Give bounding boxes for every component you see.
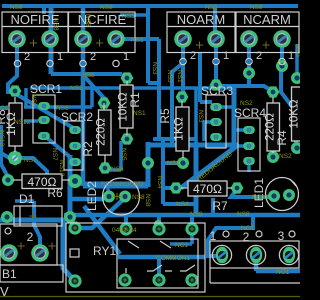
svg-text:NS3: NS3 xyxy=(122,13,135,20)
LED1 cathode pad xyxy=(283,189,295,201)
wire NS8 horizontal mid xyxy=(51,72,122,76)
wire SCR3 gate right xyxy=(218,105,232,109)
hole marker NO1 pin1 xyxy=(223,231,229,237)
relay RY1 pad bottom a xyxy=(118,273,131,286)
wire bundle vertical x170 xyxy=(172,63,183,143)
resistor R8 body xyxy=(9,97,22,152)
svg-text:2: 2 xyxy=(190,50,196,62)
connector NO1 outline xyxy=(210,241,300,283)
svg-text:R6: R6 xyxy=(47,186,63,200)
svg-text:NS3: NS3 xyxy=(166,70,173,83)
wire REDGROUND diagonal xyxy=(181,145,238,188)
svg-text:NS8: NS8 xyxy=(84,14,91,27)
svg-text:NS3: NS3 xyxy=(30,94,37,107)
svg-text:R4: R4 xyxy=(275,130,289,146)
svg-text:1: 1 xyxy=(57,51,63,63)
LED2 anode pad xyxy=(103,191,115,203)
resistor R3 body xyxy=(292,87,304,141)
wire vertical x200 to SCR3 xyxy=(200,53,212,102)
svg-text:D1: D1 xyxy=(19,192,35,206)
relay RY1 pad top b xyxy=(152,222,165,235)
thyristor SCR1 outline xyxy=(33,95,55,143)
wire NCARM pin2 down xyxy=(247,41,251,86)
battery B1 outline xyxy=(0,224,63,282)
svg-text:NS8: NS8 xyxy=(205,4,218,11)
svg-text:NS8: NS8 xyxy=(100,4,113,11)
svg-text:220Ω: 220Ω xyxy=(96,118,108,146)
connector J4 NCARM pad 2 xyxy=(240,30,258,48)
resistor R2 bottom pad xyxy=(99,162,112,173)
hole marker below NOFIRE pin1 xyxy=(47,60,53,66)
relay contact symbol bottom xyxy=(126,265,195,273)
svg-text:1KΩ: 1KΩ xyxy=(172,117,186,141)
crosshair NOARM center xyxy=(196,41,203,48)
relay RY1 pad top c xyxy=(185,222,198,235)
svg-text:NS8: NS8 xyxy=(190,211,203,218)
via below NCARM pad2 xyxy=(243,67,255,79)
wire NO1 lower xyxy=(256,260,300,271)
relay RY1 pad bottom-left xyxy=(68,274,81,287)
connector J2 NCFIRE outline xyxy=(69,12,136,53)
diode D1 left pad xyxy=(1,211,13,223)
wire NS0 vertical right edge xyxy=(295,44,299,76)
relay RY1 pad bottom b xyxy=(152,273,165,286)
resistor R5 body xyxy=(176,101,189,158)
thyristor SCR4 outline xyxy=(238,118,260,171)
connector J4 NCARM outline xyxy=(236,12,299,53)
wire SCR4 pad1 left xyxy=(232,128,247,132)
svg-text:NS6: NS6 xyxy=(56,105,69,112)
wire LED2 stub xyxy=(106,187,110,194)
wire U vertical xyxy=(161,141,165,204)
hole marker below NOFIRE pin2 xyxy=(14,60,20,66)
relay RY1 pad top a xyxy=(119,222,132,235)
connector J1 NOFIRE pad 1 xyxy=(41,30,59,48)
LED2 cathode pad xyxy=(119,191,131,203)
hole marker below NOARM pin1 xyxy=(213,58,219,64)
crosshair NCFIRE center xyxy=(96,39,103,46)
relay RY1 pad bottom c xyxy=(185,273,198,286)
thyristor SCR3 outline xyxy=(206,95,226,148)
hole marker below NCARM pin1 xyxy=(279,58,285,64)
svg-text:NS8: NS8 xyxy=(237,211,250,218)
wire R1 bottom to R2 bottom xyxy=(107,141,121,170)
hole marker below NCFIRE pin1 xyxy=(113,60,119,66)
thyristor SCR4 pad 3 xyxy=(243,157,255,165)
svg-text:NS3: NS3 xyxy=(197,110,204,123)
svg-text:NC1: NC1 xyxy=(175,242,188,249)
resistor R8 top pad xyxy=(9,85,22,96)
connector J3 NOARM pad 1 xyxy=(207,30,225,48)
connector NO1 pad 2 xyxy=(246,245,265,264)
svg-text:LED2: LED2 xyxy=(85,181,99,211)
wire NS8 stub xyxy=(42,8,46,14)
connector NO1 pad 1 xyxy=(212,245,231,264)
svg-text:NS8: NS8 xyxy=(52,18,59,31)
wire stub below R7 xyxy=(211,198,215,213)
crosshair NCARM center xyxy=(262,41,269,48)
connector NO1 pad 3 xyxy=(279,245,298,264)
wire left edge to NS7 pad xyxy=(1,153,13,160)
svg-text:NS1: NS1 xyxy=(133,110,146,117)
wire NS12 stub to SCR1 pad2 xyxy=(24,119,38,123)
board edge bottom xyxy=(0,296,300,298)
via on NS8 rail xyxy=(154,220,162,228)
svg-text:CO: CO xyxy=(0,105,10,112)
svg-text:NS4: NS4 xyxy=(167,160,180,167)
LED1 anode pad xyxy=(268,190,280,202)
svg-text:1: 1 xyxy=(223,50,229,62)
connector J1 NOFIRE outline xyxy=(2,12,68,53)
connector J3 NOARM pad 2 xyxy=(174,30,192,48)
svg-text:R5: R5 xyxy=(158,108,172,124)
resistor R3 top pad xyxy=(291,72,303,84)
thyristor SCR1 pad 1 xyxy=(38,102,50,110)
via node at x216 xyxy=(210,79,223,90)
wire SCR3 pad2 left xyxy=(204,122,214,141)
wire via to R4 top xyxy=(216,86,272,91)
resistor R8 bottom pad / node NS7 xyxy=(8,151,23,166)
wire NS8 elbow down xyxy=(148,8,159,83)
crosshair NOFIRE center xyxy=(30,39,37,46)
svg-text:R1: R1 xyxy=(128,92,142,108)
wire D1 rail xyxy=(0,218,64,223)
resistor R5 top pad xyxy=(176,91,189,102)
resistor R2 body xyxy=(99,103,112,163)
wire net NS8 top horizontal xyxy=(2,4,298,8)
svg-text:2: 2 xyxy=(24,51,30,63)
svg-text:NS1: NS1 xyxy=(176,70,183,83)
svg-text:NOARM: NOARM xyxy=(177,12,225,27)
svg-text:0402-A4: 0402-A4 xyxy=(112,227,137,234)
connector J1 NOFIRE pad 2 xyxy=(8,30,26,48)
svg-text:2: 2 xyxy=(243,230,250,244)
wire NS8 diagonal to R2 xyxy=(82,74,104,102)
wire NO1 upper xyxy=(208,216,253,256)
wire SCR2 pad2 right xyxy=(77,144,84,148)
thyristor SCR2 outline xyxy=(64,121,83,170)
hole marker below NCFIRE pin2 xyxy=(80,60,86,66)
wire NS12 vertical lower xyxy=(63,218,72,278)
hole marker NO1 pin3 xyxy=(289,231,295,237)
svg-text:NS1: NS1 xyxy=(131,37,144,44)
svg-text:NS8: NS8 xyxy=(10,4,23,11)
svg-text:NS8: NS8 xyxy=(144,194,151,207)
svg-text:NS3: NS3 xyxy=(70,85,83,92)
svg-text:10KΩ: 10KΩ xyxy=(289,99,300,128)
crosshair D1 center xyxy=(29,212,36,219)
battery B1 pad 1 xyxy=(31,244,49,262)
LED1 outline circle xyxy=(266,178,299,211)
svg-text:NS12: NS12 xyxy=(0,130,5,147)
wire NS1 horizontal xyxy=(118,39,159,137)
wire vertical x232 xyxy=(232,88,237,143)
resistor R4 body xyxy=(267,97,280,153)
wire horizontal feeder y201 xyxy=(15,199,34,203)
wire R7 to LED1 xyxy=(231,189,274,197)
wire B1 drop xyxy=(34,201,40,250)
wire LED2 feeder y199 xyxy=(68,197,104,202)
svg-text:NCARM: NCARM xyxy=(243,12,291,27)
wire SCR4 pad2 left xyxy=(234,144,247,148)
wire R8 diagonal to SCR2 xyxy=(16,94,75,129)
wire COMMON1 horizontal xyxy=(118,255,205,260)
wire NS2 below pad xyxy=(281,68,296,146)
wire NCARM pin1 down xyxy=(280,41,284,64)
svg-text:SCR4: SCR4 xyxy=(234,106,266,120)
wire LED2 diagonal xyxy=(80,197,126,228)
thyristor SCR2 pad 3 xyxy=(69,158,81,166)
svg-text:NS10: NS10 xyxy=(252,194,269,201)
svg-text:NS8: NS8 xyxy=(250,4,263,11)
wire NCFIRE pin2 long vertical xyxy=(81,8,86,186)
svg-text:3: 3 xyxy=(278,229,285,243)
resistor R4 bottom pad / node NS2 xyxy=(267,151,279,163)
wire NOARM pin2 to R5 xyxy=(181,41,185,95)
wire NS12 left edge xyxy=(1,125,8,177)
resistor R7 body xyxy=(181,181,232,196)
svg-text:REDGROUND: REDGROUND xyxy=(101,181,144,188)
wire NOFIRE pin2 down xyxy=(8,41,17,92)
svg-text:B1: B1 xyxy=(2,267,17,281)
svg-text:NS4: NS4 xyxy=(176,201,189,208)
svg-text:NS12: NS12 xyxy=(58,160,65,177)
svg-text:LED1: LED1 xyxy=(252,178,266,208)
wire NS8 jog to bottom rail xyxy=(163,202,196,206)
wire COMMON1 diagonal xyxy=(84,206,120,254)
svg-text:470Ω: 470Ω xyxy=(193,182,222,196)
relay contact symbol top xyxy=(128,241,171,248)
svg-text:NS2: NS2 xyxy=(279,153,292,160)
svg-text:NS3: NS3 xyxy=(151,62,158,75)
wire CO stub left edge xyxy=(0,106,8,110)
connector J2 NCFIRE pad 2 xyxy=(74,30,92,48)
resistor R2 top pad xyxy=(98,97,111,108)
thyristor SCR3 pad 3 xyxy=(210,133,222,141)
wire REDGROUND horizontal xyxy=(83,182,148,189)
svg-text:RY1: RY1 xyxy=(93,244,116,258)
svg-text:NS2: NS2 xyxy=(240,100,253,107)
hole marker below NOARM pin2 xyxy=(180,58,186,64)
wire NS3 stub top xyxy=(120,13,148,17)
svg-text:NS0: NS0 xyxy=(294,44,300,57)
connector J2 NCFIRE pad 1 xyxy=(107,30,125,48)
wire NS7 from pad xyxy=(18,158,47,176)
wire SCR1 gate to NS6 xyxy=(24,88,92,107)
svg-text:2: 2 xyxy=(27,230,34,244)
crosshair B1 left xyxy=(17,242,24,249)
wire NOARM pin1 to via xyxy=(214,42,218,85)
crosshair B1 right xyxy=(48,242,55,249)
wire SCR1 pad3 diagonal xyxy=(46,137,70,157)
crosshair LED2 center xyxy=(113,193,120,200)
svg-text:SCR2: SCR2 xyxy=(61,110,93,124)
resistor R1 top pad xyxy=(121,72,134,83)
battery B1 pad 2 xyxy=(0,244,18,262)
via NS2 below NCARM xyxy=(276,60,288,72)
svg-text:NS6: NS6 xyxy=(111,166,124,173)
resistor R3 bottom pad xyxy=(291,142,303,154)
resistor R5 bottom pad xyxy=(177,157,189,169)
diode D1 outline xyxy=(14,206,62,226)
wire NS8 to NOFIRE pin1 xyxy=(49,8,54,74)
thyristor SCR3 pad 2 xyxy=(210,118,222,126)
svg-text:2: 2 xyxy=(90,51,96,63)
resistor R1 bottom pad xyxy=(121,133,134,144)
svg-text:1: 1 xyxy=(210,229,217,243)
svg-text:R2: R2 xyxy=(81,141,95,157)
resistor R6 body xyxy=(13,174,70,189)
resistor R7 left pad xyxy=(170,182,183,193)
thyristor SCR1 pad 2 xyxy=(38,116,50,124)
wire REDGROUND thick horizontal y143 xyxy=(150,143,238,148)
resistor R4 top pad xyxy=(267,86,280,97)
diode D1 right pad xyxy=(64,211,76,223)
svg-text:NS8: NS8 xyxy=(132,194,145,201)
svg-text:NS7: NS7 xyxy=(24,157,37,164)
wire thick vertical x70 xyxy=(68,155,73,220)
wire SCR1 pad3 stub xyxy=(38,135,44,139)
svg-text:1: 1 xyxy=(123,51,129,63)
hole marker B1 xyxy=(5,228,11,234)
svg-text:NS5: NS5 xyxy=(120,148,127,161)
thyristor SCR2 pad 1 xyxy=(69,126,81,134)
svg-text:2: 2 xyxy=(256,50,262,62)
thyristor SCR4 pad 1 xyxy=(243,126,255,134)
connector J3 NOARM outline xyxy=(167,12,235,53)
connector J4 NCARM pad 1 xyxy=(273,30,291,48)
wire U to R7 left pad xyxy=(163,186,173,190)
wire NS3 horizontal xyxy=(30,88,236,143)
LED2 outline circle xyxy=(103,178,140,215)
svg-text:NS4: NS4 xyxy=(156,176,163,189)
resistor R6 right pad xyxy=(68,174,82,188)
svg-text:NS12: NS12 xyxy=(14,119,31,126)
resistor R7 right pad xyxy=(231,182,244,193)
wire COMMON1 to RY1 pad xyxy=(157,258,161,278)
hole marker below NCARM pin2 xyxy=(246,58,252,64)
resistor R6 left pad xyxy=(2,174,14,186)
svg-text:NS8: NS8 xyxy=(82,72,95,79)
wire NC1 xyxy=(170,231,192,244)
svg-text:NS7: NS7 xyxy=(51,148,58,161)
wire RY1 coil pad drops xyxy=(126,216,192,228)
wire REDGROUND vertical xyxy=(146,142,151,187)
relay RY1 coil pad top-left xyxy=(68,221,81,234)
wire vertical x196 to rail xyxy=(194,143,199,213)
wire NS8 bottom rail xyxy=(64,213,300,218)
hole marker NO1 pin2 xyxy=(256,231,262,237)
wire NS8 to R1 top xyxy=(122,74,126,77)
svg-text:R7: R7 xyxy=(212,199,228,213)
wire SCR4 pad3 stub xyxy=(247,163,251,172)
relay RY1 outline xyxy=(66,223,205,292)
svg-text:NO1: NO1 xyxy=(241,225,255,232)
thyristor SCR2 pad 2 xyxy=(69,142,81,150)
thyristor SCR3 pad 1 xyxy=(210,103,222,111)
wire NS8 to NOARM pin1 xyxy=(213,8,217,38)
svg-text:SCR3: SCR3 xyxy=(201,84,233,98)
svg-text:COMMON1: COMMON1 xyxy=(156,255,190,262)
thyristor SCR4 pad 2 xyxy=(243,142,255,150)
resistor R1 body xyxy=(120,81,133,135)
svg-text:NO1: NO1 xyxy=(276,269,290,276)
thyristor SCR1 pad 3 xyxy=(38,132,50,140)
wire bundle vertical x156 xyxy=(153,137,196,141)
svg-text:1: 1 xyxy=(288,50,294,62)
via at REDGROUND corner xyxy=(142,157,154,169)
wire U horizontal to R5 bottom xyxy=(163,161,180,165)
